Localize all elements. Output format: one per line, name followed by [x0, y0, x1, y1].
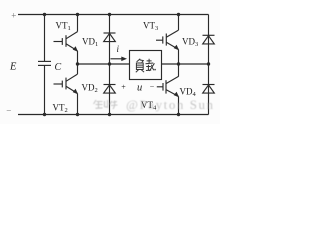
junction node mid wire x=78 — [76, 62, 79, 65]
diode VD3 — [203, 35, 215, 44]
watermark zhihu — [94, 97, 214, 112]
wire capacitor leg lower — [44, 66, 46, 115]
wire bottom rail — [18, 114, 209, 116]
load box — [130, 51, 162, 80]
capacitor C plates — [38, 61, 51, 65]
junction node bottom rail x=45 — [43, 113, 46, 116]
svg-text:+: + — [121, 83, 126, 92]
transistor VT4 — [157, 64, 179, 115]
current arrow i — [111, 57, 128, 62]
junction node top rail x=78 — [76, 13, 79, 16]
svg-text:E: E — [9, 62, 17, 73]
diode VD1 — [104, 33, 116, 42]
wire mid output right — [162, 63, 209, 65]
junction node bottom rail x=179 — [177, 113, 180, 116]
junction node top rail x=179 — [177, 13, 180, 16]
diode VD2 — [104, 85, 116, 94]
junction node mid wire x=208.5 — [207, 62, 210, 65]
transistor VT1 — [54, 15, 79, 65]
svg-text:−: − — [150, 82, 155, 91]
junction node bottom rail x=78 — [76, 113, 79, 116]
wire right leg (VD3/VD4 branch) — [208, 15, 210, 115]
wire mid output left — [78, 63, 130, 65]
junction node mid wire x=109.5 — [108, 62, 111, 65]
svg-text:u: u — [137, 83, 142, 94]
svg-text:C: C — [55, 62, 62, 73]
wire top rail — [18, 14, 209, 16]
transistor VT3 — [156, 15, 179, 65]
junction node bottom rail x=109.5 — [108, 113, 111, 116]
wire VD1/VD2 leg — [109, 15, 111, 115]
diode VD4 — [203, 85, 215, 94]
junction node mid wire x=179 — [177, 62, 180, 65]
svg-text:@Payton Sun: @Payton Sun — [126, 97, 214, 112]
load text 负载 (hand drawn strokes) — [136, 59, 156, 73]
junction node top rail x=109.5 — [108, 13, 111, 16]
transistor VT2 — [54, 64, 79, 115]
wire capacitor leg upper — [44, 15, 46, 62]
svg-text:−: − — [6, 106, 11, 116]
svg-text:+: + — [11, 11, 16, 21]
junction node top rail x=45 — [43, 13, 46, 16]
